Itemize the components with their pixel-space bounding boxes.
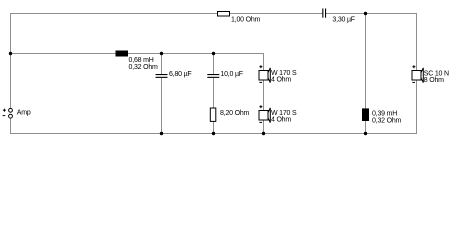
svg-text:10,0 µF: 10,0 µF [220,71,242,78]
wire branch C2 upper [161,53,163,74]
wire left vertical upper [10,13,12,108]
node junction SP2 bottom [262,132,265,135]
resistor R1 1,00 Ohm [218,12,230,17]
wire second horizontal line [10,53,264,55]
wire branch C3 upper [213,53,215,74]
node junction C3 top [212,52,215,55]
node junction left at second line [9,52,12,55]
speaker SP1 W 170 S [259,65,270,82]
capacitor C2 6,80 uF [156,74,168,78]
wire branch speakers SP1 SP2 [263,53,265,134]
svg-text:0,32 Ohm: 0,32 Ohm [372,117,402,124]
node junction R2 bottom [212,132,215,135]
wire branch L2 vertical [365,13,367,134]
svg-text:0,32 Ohm: 0,32 Ohm [129,64,159,71]
inductor L2 0,39 mH [362,108,369,121]
svg-text:8 Ohm: 8 Ohm [424,77,444,84]
label plus sign [3,109,6,112]
terminal plus circle [9,108,13,112]
label SP3 [424,70,449,84]
inductor L1 0,68 mH [116,51,129,57]
svg-text:0,39 mH: 0,39 mH [372,110,397,117]
node junction C2 top [160,52,163,55]
label SP2 [271,110,297,124]
node junction L2 bottom [364,132,367,135]
label SP1 [271,70,297,84]
svg-text:Amp: Amp [17,110,31,117]
wire branch C3-R2 lower [213,78,215,134]
label minus sign [3,115,6,117]
svg-text:8,20 Ohm: 8,20 Ohm [220,110,250,117]
svg-text:6,80 µF: 6,80 µF [169,71,191,78]
wire branch C2 lower [161,78,163,134]
svg-text:4 Ohm: 4 Ohm [271,117,291,124]
speaker SP2 W 170 S [259,105,270,122]
label L2 value [372,110,402,124]
wire bottom line [10,133,417,135]
speaker SP3 SC 10 N [412,65,423,82]
svg-text:3,30 µF: 3,30 µF [332,17,354,24]
capacitor C1 3,30 uF [322,9,326,18]
resistor R2 8,20 Ohm [210,108,216,121]
node junction top at L2 branch [364,12,367,15]
wire top line right segment [326,13,417,15]
node junction C2 bottom [160,132,163,135]
label L1 value [129,57,159,71]
terminal minus circle [9,114,13,118]
wire right vertical [416,13,418,134]
wire left vertical lower [10,118,12,134]
svg-text:1,00 Ohm: 1,00 Ohm [231,17,261,24]
svg-text:4 Ohm: 4 Ohm [271,77,291,84]
wire top line left segment [10,13,322,15]
capacitor C3 10,0 uF [207,74,219,78]
